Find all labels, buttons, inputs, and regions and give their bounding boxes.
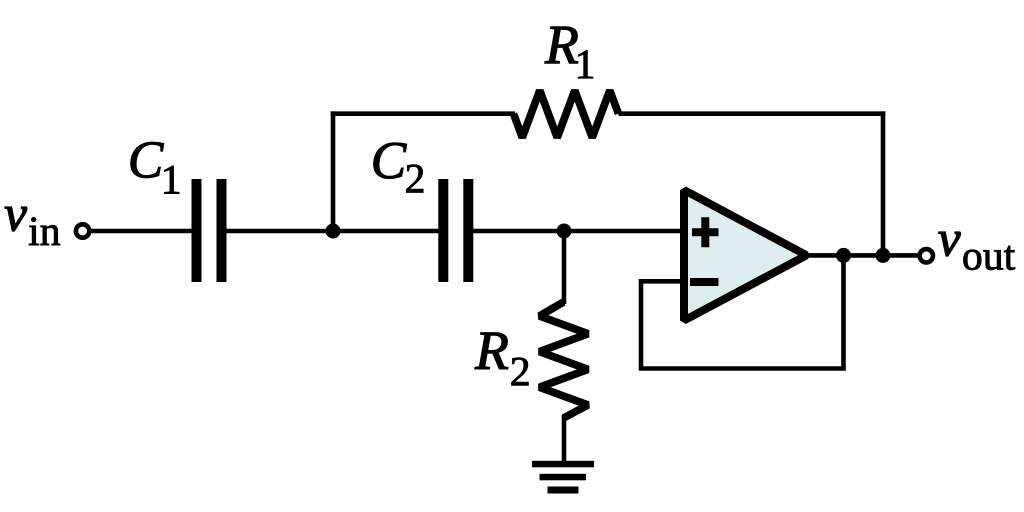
ground xyxy=(532,461,594,494)
label C1 (1) xyxy=(164,166,179,194)
label R1 (1) xyxy=(578,51,593,79)
wire: node B down to R2 xyxy=(562,231,567,304)
op-amp - input marker xyxy=(690,278,719,286)
feedback wire: output node to - input xyxy=(641,255,844,368)
label C2 (C) xyxy=(374,143,407,179)
wire: top rail left of R1 xyxy=(331,111,515,116)
wire: right rail down to output node xyxy=(881,111,886,255)
terminal v_out xyxy=(920,249,933,262)
capacitor C2 xyxy=(438,179,473,282)
wire: v_in terminal to C1 xyxy=(89,229,192,234)
label v_out (out) xyxy=(963,246,1015,270)
label C1 (C) xyxy=(131,142,164,178)
op-amp + input marker xyxy=(692,217,719,247)
wire: R2 to ground xyxy=(562,415,567,464)
wire: op-amp output xyxy=(806,253,920,258)
resistor R2 xyxy=(540,302,589,418)
label R2 (2) xyxy=(512,358,529,386)
label C2 (2) xyxy=(406,165,423,193)
wire: node A up to top rail xyxy=(331,111,336,231)
label v_in (in) xyxy=(29,217,60,245)
label v_in (v) xyxy=(5,207,27,231)
terminal v_in xyxy=(76,224,89,237)
wire: top rail right of R1 xyxy=(619,111,886,116)
capacitor C1 xyxy=(192,179,227,282)
node B junction dot xyxy=(557,224,572,239)
label v_out (v) xyxy=(939,232,961,256)
op-amp U1 body xyxy=(684,190,807,321)
node C junction dot (feedback tap) xyxy=(836,248,851,263)
node A junction dot xyxy=(326,224,341,239)
wire: C2 to op-amp + input xyxy=(472,229,686,234)
node D junction dot (right rail) xyxy=(876,248,891,263)
wire: C1 to C2 through node A xyxy=(226,229,439,234)
label R1 (R) xyxy=(545,27,578,63)
resistor R1 xyxy=(514,91,619,138)
label R2 (R) xyxy=(475,333,508,369)
